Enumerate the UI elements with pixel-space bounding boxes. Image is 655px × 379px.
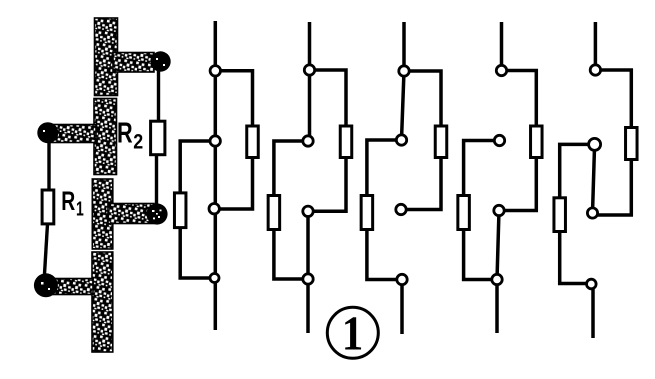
svg-text:1: 1 (342, 306, 364, 360)
svg-text:R: R (61, 186, 75, 216)
svg-text:1: 1 (76, 197, 84, 220)
svg-text:2: 2 (133, 130, 143, 154)
svg-text:R: R (117, 118, 133, 150)
